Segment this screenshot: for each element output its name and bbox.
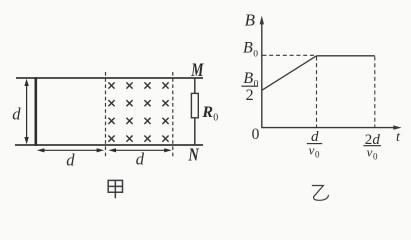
curve: B rises from B0/2 to B0: [262, 56, 317, 91]
svg-text:B: B: [243, 70, 253, 87]
caption: figure jia (甲): [108, 180, 122, 198]
svg-text:d: d: [12, 105, 21, 124]
graph B axis (vertical): [260, 16, 264, 128]
resistor R0 (box): [191, 93, 198, 117]
svg-text:N: N: [188, 146, 201, 165]
svg-text:B: B: [245, 11, 256, 30]
svg-text:R: R: [201, 104, 213, 121]
tick label d/v0 fraction (t axis): [307, 129, 322, 160]
tick label B0/2 fraction (y axis): [241, 70, 258, 104]
svg-text:2: 2: [246, 87, 254, 104]
svg-text:0: 0: [252, 126, 260, 143]
svg-text:M: M: [190, 59, 204, 81]
graph t axis (horizontal): [261, 125, 402, 129]
dimension arrow d (field region width): [108, 148, 171, 152]
svg-text:d: d: [66, 150, 75, 169]
svg-text:d: d: [136, 150, 145, 169]
wire: top rail M: [16, 77, 203, 79]
svg-text:0: 0: [315, 149, 320, 159]
wire: right branch lower segment: [194, 118, 196, 145]
dashed boundary line (right edge of field region): [172, 72, 174, 158]
caption: figure yi (乙): [312, 186, 329, 201]
dimension arrow d (rod to field region): [37, 148, 104, 152]
svg-text:0: 0: [373, 151, 378, 161]
dashed level line at B0: [262, 54, 316, 56]
curve: B constant at B0: [317, 55, 375, 57]
dashed boundary line (left edge of field region): [105, 72, 107, 158]
conducting rod ab: [34, 77, 37, 146]
tick label 2d/v0 fraction (t axis): [363, 132, 381, 162]
dashed drop line at t=d/v0: [316, 57, 318, 128]
svg-text:0: 0: [254, 79, 259, 89]
svg-text:v: v: [309, 143, 315, 158]
svg-text:v: v: [367, 145, 373, 160]
magnetic field region symbols (4x4 crosses, B into page): [108, 82, 168, 141]
tick label B0 (y axis): [243, 40, 258, 60]
svg-text:t: t: [396, 130, 401, 145]
wire: bottom rail N: [15, 144, 203, 146]
svg-text:0: 0: [213, 113, 218, 124]
dimension arrow d (vertical, rail spacing): [24, 79, 28, 145]
svg-text:B: B: [243, 40, 253, 57]
svg-text:0: 0: [253, 50, 258, 60]
dashed drop line at t=2d/v0: [374, 57, 376, 128]
wire: right branch upper segment: [194, 78, 196, 93]
label R0: [201, 104, 218, 124]
